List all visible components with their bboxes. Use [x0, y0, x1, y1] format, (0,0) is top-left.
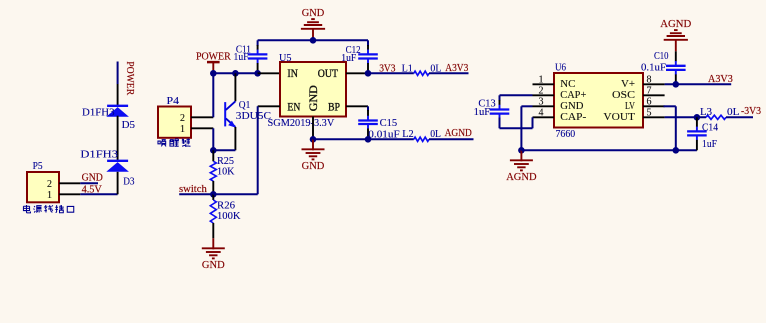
- wire corner above C11: [257, 40, 259, 46]
- svg-text:GND: GND: [302, 161, 325, 172]
- wire C13 top corner: [499, 95, 501, 101]
- svg-text:P4: P4: [167, 96, 180, 107]
- svg-text:AGND: AGND: [506, 172, 537, 183]
- svg-text:7: 7: [647, 85, 652, 96]
- C14 value 1uF: [702, 139, 717, 150]
- ground GND top: [301, 8, 325, 41]
- wire POWER rail down to P4 pin 2: [212, 73, 214, 117]
- svg-text:D3: D3: [123, 176, 134, 187]
- junction C10/pin8: [673, 81, 680, 88]
- converter U6: [554, 73, 643, 128]
- wire switch node to EN column: [213, 193, 257, 195]
- svg-text:L3: L3: [700, 107, 712, 118]
- wire CAP- elbow up: [532, 117, 534, 128]
- svg-text:2: 2: [539, 85, 544, 96]
- R25 value 10K: [217, 166, 235, 177]
- svg-text:GND: GND: [308, 85, 320, 111]
- D5 designator: [122, 120, 135, 131]
- wire LV right: [664, 105, 676, 107]
- D5 value D1FH3: [82, 108, 115, 119]
- wire BP corner: [367, 106, 369, 111]
- svg-text:VOUT: VOUT: [603, 112, 635, 123]
- svg-text:POWER: POWER: [196, 51, 231, 62]
- svg-text:P5: P5: [33, 161, 43, 172]
- D3 value D1FH3: [80, 149, 118, 160]
- Q1 designator: [239, 100, 251, 111]
- resistor R26: [210, 194, 216, 238]
- inductor L2: [414, 137, 429, 141]
- U6 pin 4 CAP-: [533, 107, 587, 123]
- L2 value 0L: [430, 129, 441, 140]
- wire emitter to node: [213, 149, 235, 151]
- U5 designator: [279, 53, 292, 64]
- svg-text:3DU5C: 3DU5C: [236, 111, 271, 122]
- U6 pin 2 CAP+: [533, 85, 587, 101]
- svg-text:5: 5: [647, 107, 652, 118]
- capacitor C10: [666, 51, 686, 84]
- net label POWER (vertical): [124, 61, 135, 95]
- svg-text:R26: R26: [217, 201, 235, 212]
- diode D3: [106, 161, 129, 172]
- wire D3 anode down to 4.5V corner: [117, 172, 119, 195]
- wire switch stub: [179, 193, 213, 195]
- junction switch node: [210, 191, 217, 198]
- U5 OUT pin: [346, 72, 368, 74]
- U5 BP pin: [346, 105, 368, 107]
- regulator U5: [280, 62, 346, 117]
- wire 3V3 rail: [368, 72, 414, 74]
- C15 designator: [380, 118, 398, 129]
- svg-text:GND: GND: [82, 172, 104, 183]
- U6 pin 3 GND: [533, 96, 584, 112]
- junction VOUT/C14: [694, 114, 701, 121]
- net label GND: [82, 172, 104, 183]
- svg-text:D1FH3: D1FH3: [82, 108, 115, 119]
- wire POWER net stub above D5: [117, 62, 119, 85]
- svg-text:8: 8: [647, 74, 652, 85]
- P5 pin 2: [47, 179, 80, 190]
- svg-text:C15: C15: [380, 118, 398, 129]
- inductor L1: [414, 71, 429, 75]
- wire AGND stub: [429, 138, 474, 140]
- diode D5: [106, 106, 129, 117]
- svg-text:L2: L2: [402, 129, 414, 140]
- wire 4.5V from P5 pin 1 to diode column: [80, 193, 117, 195]
- net label switch: [179, 184, 208, 195]
- capacitor C15: [358, 110, 378, 139]
- wire GND pin3 left: [521, 105, 532, 107]
- svg-text:A3V3: A3V3: [445, 63, 468, 74]
- L2 designator: [402, 129, 414, 140]
- U5 pin name IN: [287, 68, 298, 80]
- svg-text:1uF: 1uF: [234, 52, 249, 63]
- svg-text:1: 1: [47, 190, 52, 201]
- wire C13 bottom to CAP- elbow: [500, 127, 533, 129]
- wire AGND rail 2: [313, 138, 414, 140]
- svg-text:D1FH3: D1FH3: [80, 149, 118, 160]
- transistor Q1 collector pin: [234, 73, 236, 101]
- ground GND below R26: [202, 238, 225, 271]
- power port POWER: [196, 51, 231, 73]
- svg-text:U6: U6: [555, 62, 566, 73]
- C12 value 1uF: [341, 53, 356, 64]
- P5 designator: [33, 161, 43, 172]
- svg-text:-3V3: -3V3: [741, 106, 761, 117]
- svg-text:OSC: OSC: [612, 90, 635, 101]
- svg-text:V+: V+: [621, 79, 635, 90]
- R26 value 100K: [217, 211, 241, 222]
- net label -3V3: [741, 106, 761, 117]
- C10 designator: [654, 51, 669, 62]
- U5 value SGM2019-3.3V: [268, 117, 335, 129]
- svg-text:2: 2: [47, 179, 52, 190]
- svg-text:A3V3: A3V3: [708, 74, 733, 85]
- wire AGND rail: [521, 149, 697, 151]
- ground AGND top right: [660, 19, 691, 52]
- U5 GND pin: [312, 117, 314, 140]
- connector P4: [158, 107, 191, 138]
- svg-text:NC: NC: [560, 79, 575, 90]
- U5 EN pin: [258, 105, 280, 107]
- junction POWER rail: [210, 70, 217, 77]
- Q1 value 3DU5C: [236, 111, 271, 122]
- U5 pin name GND (rotated): [308, 85, 320, 111]
- U6 value 7660: [556, 129, 576, 140]
- U6 pin 7 OSC: [612, 85, 665, 101]
- resistor R25: [210, 150, 216, 194]
- capacitor C11: [248, 45, 268, 73]
- L3 value 0L: [727, 107, 740, 118]
- svg-text:L1: L1: [402, 63, 413, 74]
- svg-text:CAP-: CAP-: [560, 112, 587, 123]
- svg-text:C10: C10: [654, 51, 669, 62]
- R25 designator: [217, 156, 234, 167]
- wire EN vertical down: [257, 106, 259, 194]
- svg-text:Q1: Q1: [239, 100, 251, 111]
- net label A3V3 right: [708, 74, 733, 85]
- svg-text:U5: U5: [279, 53, 292, 64]
- op-amp U5 IN pin: [258, 72, 280, 74]
- wire A3V3 stub: [429, 72, 469, 74]
- P4 pin 2: [180, 113, 213, 124]
- svg-text:CAP+: CAP+: [560, 90, 586, 101]
- svg-text:1: 1: [539, 74, 544, 85]
- component comment (power line socket) for P5: [23, 205, 73, 213]
- ground GND below U5: [302, 139, 325, 172]
- svg-text:4: 4: [539, 107, 544, 118]
- wire GND stub at P5 pin 2: [80, 182, 98, 184]
- P4 pin 1: [180, 124, 213, 135]
- svg-text:0.1uF: 0.1uF: [641, 63, 666, 74]
- svg-text:100K: 100K: [217, 211, 241, 222]
- svg-text:1: 1: [180, 124, 185, 135]
- junction AGND: [518, 147, 525, 154]
- C11 designator: [236, 44, 251, 55]
- svg-text:0L: 0L: [727, 107, 740, 118]
- capacitor C12: [358, 45, 378, 73]
- component comment (wakeup key) for P4: [158, 138, 191, 146]
- C11 value 1uF: [234, 52, 249, 63]
- transistor Q1 emitter pin: [234, 127, 236, 150]
- wire A3V3 out: [665, 83, 732, 85]
- C13 designator: [478, 99, 495, 110]
- L1 value 0L: [430, 64, 441, 75]
- inductor L3: [706, 115, 726, 119]
- svg-text:2: 2: [180, 113, 185, 124]
- wire C13 bottom corner: [499, 118, 501, 129]
- U5 pin name OUT: [318, 68, 338, 80]
- R26 designator: [217, 201, 235, 212]
- svg-text:OUT: OUT: [318, 68, 338, 80]
- svg-text:GND: GND: [560, 101, 584, 112]
- C10 value 0.1uF: [641, 63, 666, 74]
- U5 pin name EN: [287, 101, 301, 113]
- wire -3V3 stub: [726, 116, 753, 118]
- svg-text:AGND: AGND: [660, 19, 691, 30]
- svg-text:IN: IN: [287, 68, 298, 80]
- connector P5: [27, 172, 59, 202]
- svg-text:7660: 7660: [556, 129, 576, 140]
- junction LV/AGND rail: [673, 147, 680, 154]
- wire between D5 anode and D3 cathode: [117, 116, 119, 161]
- svg-text:1uF: 1uF: [474, 107, 491, 118]
- svg-text:AGND: AGND: [445, 128, 473, 139]
- net label 3V3: [379, 63, 395, 74]
- junction top GND: [310, 37, 317, 44]
- svg-text:LV: LV: [625, 101, 635, 112]
- U6 pin 5 VOUT: [603, 107, 664, 123]
- wire LV down to AGND rail: [675, 106, 677, 150]
- capacitor C13: [490, 100, 510, 119]
- capacitor C14: [687, 117, 707, 150]
- C12 designator: [346, 45, 361, 56]
- C13 value 1uF: [474, 107, 491, 118]
- svg-text:6: 6: [647, 96, 652, 107]
- D3 designator: [123, 176, 134, 187]
- U5 pin name BP: [328, 101, 340, 113]
- net label AGND: [445, 128, 473, 139]
- junction OUT/C12: [365, 70, 372, 77]
- wire D5 cathode pin: [117, 84, 119, 106]
- C15 value 0.01uF: [368, 130, 400, 141]
- transistor Q1: [225, 101, 236, 127]
- svg-text:C14: C14: [702, 122, 719, 133]
- svg-text:3: 3: [539, 96, 544, 107]
- L3 designator: [700, 107, 712, 118]
- wire POWER rail to Q1 collector: [213, 72, 257, 74]
- junction U5 GND: [310, 136, 317, 143]
- junction C11/IN: [254, 70, 261, 77]
- P5 pin 1: [47, 190, 80, 201]
- wire top C11-C12: [258, 39, 368, 41]
- svg-text:POWER: POWER: [124, 61, 135, 95]
- wire GND pin3 down to AGND rail: [520, 106, 522, 150]
- net label 4.5V: [82, 185, 103, 196]
- net label A3V3: [445, 63, 468, 74]
- svg-text:BP: BP: [328, 101, 340, 113]
- P4 designator: [167, 96, 180, 107]
- svg-text:4.5V: 4.5V: [82, 185, 103, 196]
- svg-text:switch: switch: [179, 184, 208, 195]
- U6 designator: [555, 62, 566, 73]
- svg-text:10K: 10K: [217, 166, 235, 177]
- ground AGND below U6: [506, 150, 537, 183]
- junction Q1 collector: [232, 70, 239, 77]
- svg-text:D5: D5: [122, 120, 135, 131]
- junction emitter/R25 node: [210, 147, 217, 154]
- U6 pin 6 LV: [625, 96, 665, 112]
- svg-text:SGM2019-3.3V: SGM2019-3.3V: [268, 117, 335, 129]
- svg-text:GND: GND: [202, 260, 225, 271]
- U6 pin 1 NC: [533, 74, 576, 90]
- wire P4 pin 1 down to node: [212, 128, 214, 150]
- svg-text:1uF: 1uF: [702, 139, 717, 150]
- svg-text:EN: EN: [287, 101, 301, 113]
- junction C15 bottom: [365, 136, 372, 143]
- wire VOUT: [665, 116, 706, 118]
- L1 designator: [402, 63, 413, 74]
- wire corner above C12: [367, 40, 369, 46]
- U6 pin 8 V+: [621, 74, 665, 90]
- svg-text:3V3: 3V3: [379, 63, 395, 74]
- wire CAP+ to C13 top: [500, 94, 533, 96]
- C14 designator: [702, 122, 719, 133]
- svg-text:GND: GND: [302, 8, 325, 19]
